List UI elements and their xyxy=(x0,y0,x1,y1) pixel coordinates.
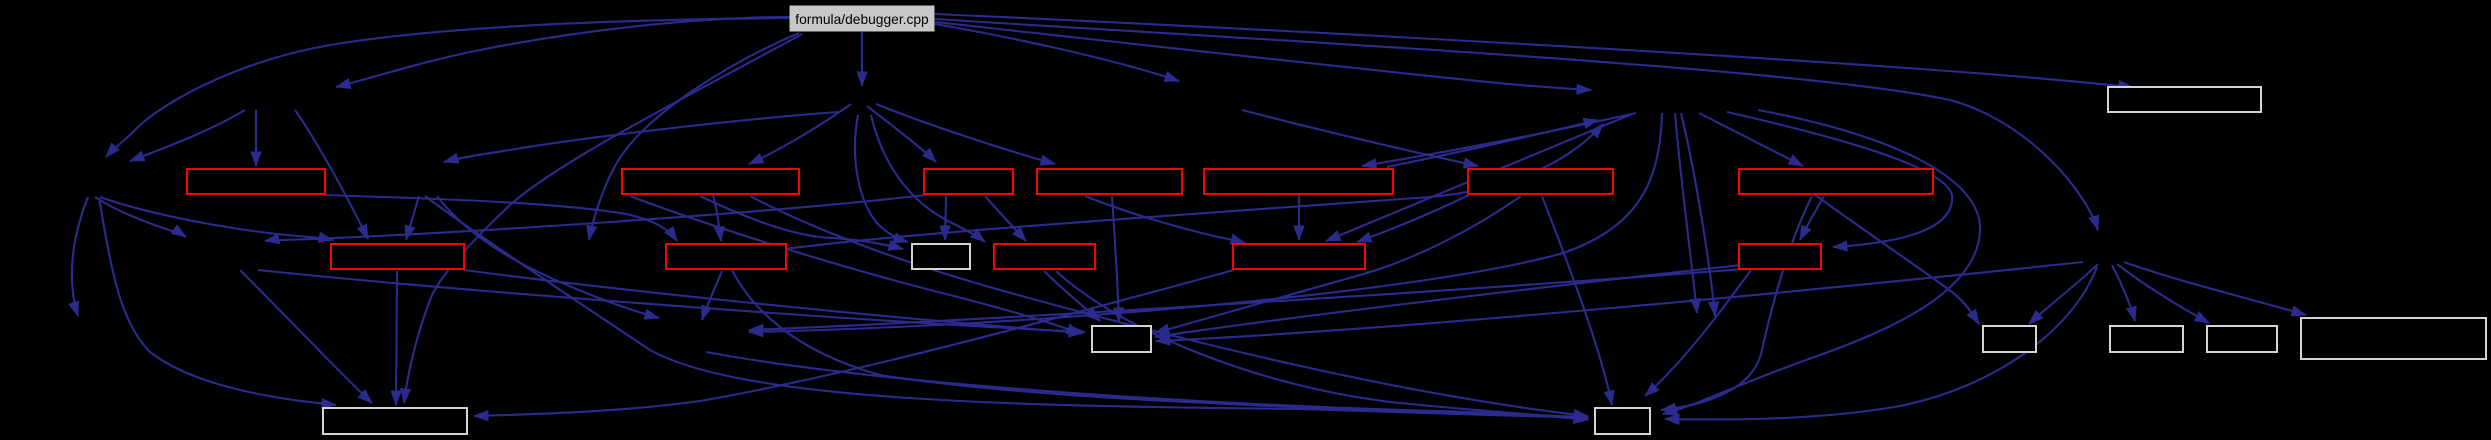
box P xyxy=(1983,326,2036,352)
wire root to node N8 xyxy=(935,19,2098,230)
wire I to box T xyxy=(396,271,397,405)
wire N to box O xyxy=(1155,265,1741,337)
box K xyxy=(912,244,970,269)
wire N1 to box I xyxy=(100,197,333,240)
wire root to box T xyxy=(404,34,802,403)
wire N5 to box F xyxy=(1242,110,1478,166)
box F xyxy=(1468,169,1613,194)
wire N4 to box L xyxy=(871,115,985,242)
wire N1 to node V0 xyxy=(72,197,88,316)
wire N1 to box T xyxy=(99,198,336,405)
node root formula/debugger.cpp xyxy=(790,6,934,31)
wire N6 to box G xyxy=(1699,113,1803,166)
box G xyxy=(1739,169,1933,194)
wire L to box O xyxy=(1044,271,1100,321)
wire N4 to box C xyxy=(867,106,936,162)
wire N6 to box U swing xyxy=(1663,110,1980,414)
wire N6 to box E xyxy=(1362,113,1636,166)
svg-text:formula/debugger.cpp: formula/debugger.cpp xyxy=(795,12,929,27)
wire G to box N xyxy=(1800,196,1824,240)
wire N8 to box S xyxy=(2124,262,2306,315)
wire L to box U xyxy=(1056,271,1588,419)
wire M to box T xyxy=(474,270,1234,416)
wire N to node V1 xyxy=(749,269,1744,330)
box J xyxy=(666,244,786,269)
wire N2 to box U xyxy=(425,196,1588,418)
wire C to node M1 xyxy=(265,195,926,241)
wire N6 to box M xyxy=(1326,114,1632,241)
wire E to node N6 xyxy=(1387,120,1598,167)
box Q xyxy=(2110,326,2183,352)
wire N8 to box Q xyxy=(2112,265,2135,321)
wire N8 to box O xyxy=(1156,262,2083,341)
box C xyxy=(924,169,1013,194)
wire F to box M xyxy=(1357,195,1469,242)
box S xyxy=(2301,318,2486,359)
wire root to node M2 xyxy=(589,33,799,240)
wire D to box O xyxy=(1112,196,1119,322)
box H xyxy=(2108,87,2261,112)
wire root to box H xyxy=(935,14,2133,87)
wire B to box K xyxy=(700,196,903,249)
wire N6 to node W1b xyxy=(1681,113,1715,316)
wire root to node N4 xyxy=(861,32,863,86)
wire N8 to box U right xyxy=(1665,267,2097,420)
box A xyxy=(187,169,325,194)
box I xyxy=(331,244,464,269)
wire I to box O xyxy=(464,270,1083,333)
wire B to box J xyxy=(713,195,721,241)
wire N4 to box K xyxy=(855,115,908,242)
wire root to node X1 xyxy=(336,17,790,87)
wire F to box O xyxy=(1155,196,1521,333)
wire G to box P xyxy=(1814,194,1979,324)
wire N2 to node V1 xyxy=(437,196,659,318)
box E xyxy=(1204,169,1393,194)
wire M1 to box O xyxy=(258,270,1085,332)
box D xyxy=(1037,169,1182,194)
wire N2 to box I xyxy=(406,196,419,240)
box O xyxy=(1092,326,1151,352)
wire N8 to box R xyxy=(2117,264,2209,323)
wire B to box U xyxy=(750,196,1588,416)
wire N4 to node N2 xyxy=(444,112,838,162)
wire N6 to box N hook xyxy=(1727,112,1952,247)
wire X1 to box A xyxy=(255,110,257,166)
wire V1 to box U xyxy=(706,352,1588,420)
box U xyxy=(1595,408,1650,434)
wire X1 to node N1 xyxy=(130,110,245,161)
wire B to box O xyxy=(630,196,1081,334)
wire root to node N5 xyxy=(935,24,1179,81)
wire C to box L xyxy=(985,196,1026,241)
wire N1 to node M1 xyxy=(95,197,186,237)
box B xyxy=(622,169,799,194)
wire N4 to box B xyxy=(749,104,851,164)
wire C to box K xyxy=(945,196,946,240)
wire E to box M xyxy=(1298,195,1300,240)
box M xyxy=(1233,244,1365,269)
wire N6 to node V1 xyxy=(749,113,1662,332)
wire X1 to box I xyxy=(295,110,368,239)
wire N to box U xyxy=(1645,270,1751,396)
box R xyxy=(2207,326,2277,352)
wire G to box U xyxy=(1661,196,1812,410)
wire root to node N1 xyxy=(106,18,790,157)
wire root to node N6 xyxy=(935,22,1591,90)
box N xyxy=(1739,244,1821,269)
wire N8 to box P xyxy=(2029,264,2098,324)
wire A to box J xyxy=(325,195,677,241)
wire J to box U xyxy=(732,270,1588,417)
box L xyxy=(994,244,1095,269)
wire J to node N6 xyxy=(786,124,1603,249)
wire D to box M xyxy=(1085,196,1245,243)
box T xyxy=(323,408,467,434)
wire M1 to box T xyxy=(240,270,372,403)
wire F to box U xyxy=(1542,196,1612,405)
wire N6 to node W1a xyxy=(1675,113,1697,313)
wire J to node V1 xyxy=(702,271,722,320)
wire N4 to box D xyxy=(876,104,1055,164)
